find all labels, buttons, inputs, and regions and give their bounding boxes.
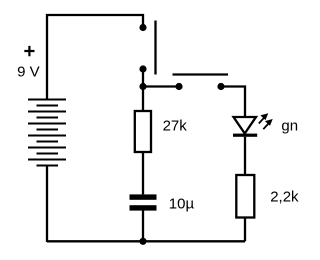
wire node A to resistor R1 bbox=[142, 87, 144, 112]
switch S2 right contact bbox=[217, 83, 224, 90]
switch S2 lever (open) bbox=[173, 73, 229, 75]
wire from battery + terminal up and across top to switch S1 bbox=[47, 15, 143, 100]
wire LED cathode to resistor R2 bbox=[244, 137, 246, 175]
wire battery negative to bottom rail bbox=[46, 166, 48, 243]
wire capacitor C1 to node B bbox=[142, 211, 144, 242]
resistor R2 body bbox=[236, 175, 254, 218]
wire resistor R1 to capacitor C1 bbox=[142, 152, 144, 194]
bottom rail wire bbox=[47, 240, 245, 242]
svg-text:10µ: 10µ bbox=[169, 195, 195, 212]
switch S1 top contact bbox=[139, 24, 146, 31]
LED light arrow 1 bbox=[259, 113, 268, 123]
LED D1 triangle bbox=[234, 117, 257, 134]
switch S1 lever (open) bbox=[154, 21, 156, 75]
wire node A to switch S2 left contact bbox=[143, 85, 179, 87]
wire S2 right contact to LED anode bbox=[221, 87, 245, 118]
wire S1 bottom contact to junction node A bbox=[142, 69, 144, 87]
svg-text:9 V: 9 V bbox=[17, 64, 40, 81]
svg-text:27k: 27k bbox=[163, 118, 188, 135]
label + (battery positive) bbox=[24, 46, 34, 56]
node A junction dot bbox=[139, 83, 146, 90]
svg-text:gn: gn bbox=[281, 118, 298, 135]
wire resistor R2 to bottom rail bbox=[244, 218, 246, 242]
capacitor C1 top plate bbox=[130, 194, 157, 199]
switch S1 bottom contact bbox=[139, 65, 146, 72]
resistor R1 body bbox=[135, 111, 151, 152]
switch S2 left contact bbox=[175, 83, 182, 90]
svg-text:2,2k: 2,2k bbox=[270, 188, 299, 205]
LED light arrow 2 bbox=[263, 119, 272, 129]
bottom junction dot node B bbox=[139, 238, 146, 245]
LED D1 cathode bar bbox=[233, 134, 257, 137]
battery B1 plates bbox=[28, 100, 66, 166]
capacitor C1 bottom plate bbox=[130, 205, 157, 210]
